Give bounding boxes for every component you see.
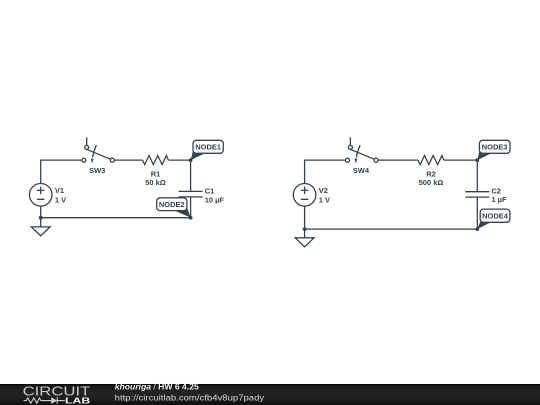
- label SW3: [89, 166, 105, 175]
- label R2 value: [419, 169, 444, 187]
- node label NODE1: [191, 140, 224, 160]
- wire SW4 to R2: [378, 159, 418, 161]
- voltage source V1: [29, 184, 52, 207]
- switch SW4: [346, 137, 379, 163]
- svg-text:NODE2: NODE2: [159, 200, 185, 209]
- svg-text:1 µF: 1 µF: [491, 195, 507, 204]
- svg-text:NODE1: NODE1: [195, 143, 221, 152]
- wire C2 to node D: [476, 197, 478, 229]
- svg-text:1 V: 1 V: [319, 196, 330, 205]
- CircuitLab logo wordmark LAB: [65, 396, 90, 405]
- svg-text:SW3: SW3: [89, 166, 105, 175]
- label C2 value: [491, 187, 507, 205]
- footer url: [115, 393, 265, 403]
- voltage source V2: [293, 184, 316, 207]
- svg-text:C1: C1: [205, 186, 215, 195]
- wire node C to C2: [476, 160, 478, 192]
- svg-text:V2: V2: [319, 186, 328, 195]
- label V2 value: [319, 186, 330, 205]
- label V1 value: [55, 186, 66, 205]
- resistor R2: [418, 156, 444, 165]
- capacitor C1: [179, 191, 203, 197]
- junction dot at V1 bottom: [39, 216, 43, 220]
- svg-text:http://circuitlab.com/cfb4v8up: http://circuitlab.com/cfb4v8up7pady: [115, 393, 265, 403]
- wire V1 top to SW3: [41, 160, 82, 184]
- wire C1 to node B: [190, 197, 192, 218]
- footer title khouriga / HW 6 4.25: [115, 382, 199, 392]
- resistor R1: [143, 156, 169, 165]
- capacitor C2: [465, 192, 489, 197]
- svg-text:500 kΩ: 500 kΩ: [419, 178, 444, 187]
- svg-text:10 µF: 10 µF: [205, 196, 225, 205]
- svg-text:NODE3: NODE3: [482, 143, 508, 152]
- svg-text:SW4: SW4: [353, 166, 370, 175]
- wire R2 to node C: [444, 159, 477, 161]
- svg-text:1 V: 1 V: [55, 196, 66, 205]
- node label NODE2: [157, 198, 191, 218]
- junction dot node A: [189, 158, 193, 162]
- wire node A to C1: [190, 160, 192, 191]
- label SW4: [353, 166, 370, 175]
- label R1 value: [145, 169, 166, 187]
- wire SW3 to R1: [114, 159, 142, 161]
- wire V2 top to SW4: [305, 160, 346, 184]
- node label NODE3: [477, 140, 510, 160]
- CircuitLab logo resistor zigzag: [24, 398, 52, 403]
- junction dot at V2 bottom: [303, 227, 307, 231]
- svg-text:NODE4: NODE4: [482, 211, 509, 220]
- footer bar: [0, 384, 540, 405]
- wire V1 bottom to ground: [40, 206, 42, 227]
- node label NODE4: [477, 209, 510, 229]
- svg-text:LAB: LAB: [65, 396, 90, 405]
- wire bottom rail right circuit: [305, 228, 478, 230]
- wire bottom rail left circuit: [41, 217, 191, 219]
- label C1 value: [205, 186, 225, 204]
- junction dot node C: [475, 158, 479, 162]
- svg-text:50 kΩ: 50 kΩ: [145, 178, 166, 187]
- ground left: [31, 227, 50, 236]
- CircuitLab logo wordmark CIRCUIT: [23, 384, 91, 399]
- CircuitLab logo diode: [51, 397, 65, 404]
- wire V2 bottom to ground: [304, 206, 306, 238]
- junction dot node D: [475, 227, 479, 231]
- wire R1 to node A: [168, 159, 190, 161]
- switch SW3: [82, 137, 115, 163]
- svg-text:khouriga / HW 6 4.25: khouriga / HW 6 4.25: [115, 382, 199, 392]
- junction dot node B: [189, 216, 193, 220]
- ground right: [295, 238, 314, 247]
- svg-text:V1: V1: [55, 186, 64, 195]
